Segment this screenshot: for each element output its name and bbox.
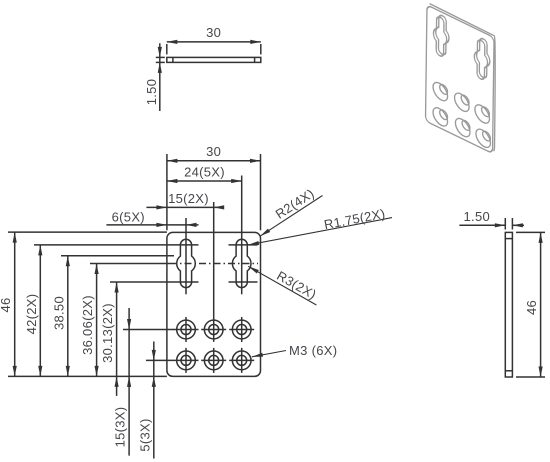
- isometric countersunk hole 4 outer ellipse: [430, 105, 450, 128]
- isometric countersunk hole 3 outer ellipse: [472, 102, 492, 125]
- isometric keyhole slot 1 outline: [433, 14, 447, 59]
- side view corner tangent tick bottom: [505, 370, 512, 372]
- hole r2c2 tap circle: [209, 355, 219, 365]
- hole r2c1 vertical crosshair: [185, 348, 187, 373]
- bottom edge extension line (left): [8, 375, 167, 377]
- hole r2c2 vertical crosshair: [213, 348, 215, 373]
- dimension 46 (side) - line and arrows: [540, 232, 542, 377]
- isometric view group: [425, 5, 494, 153]
- hole r1c3 countersink circle: [232, 320, 251, 339]
- dimension 42(2X) - vertical line: [39, 245, 41, 377]
- hole r1c2 horizontal crosshair: [201, 329, 226, 331]
- svg-text:46: 46: [0, 297, 13, 312]
- svg-text:38.50: 38.50: [51, 296, 66, 330]
- isometric keyhole slot 1 depth edge: [435, 13, 449, 58]
- front 15(2X) ext line middle column: [213, 202, 215, 342]
- hole r2c3 vertical crosshair: [241, 348, 243, 373]
- svg-text:24(5X): 24(5X): [184, 164, 225, 179]
- keyhole right vertical centerline (also ext for 24 dim): [241, 176, 243, 295]
- isometric countersunk hole 6 inner ellipse: [481, 130, 492, 142]
- top view corner-radius tangent tick left: [172, 57, 174, 62]
- front view keyhole slot left outline: [177, 239, 196, 287]
- front 30 dim - ext line left edge: [166, 154, 168, 230]
- dimension 36.06(2X) - vertical line: [96, 264, 98, 377]
- isometric keyhole slot 2 depth edge: [476, 36, 490, 81]
- svg-text:15(2X): 15(2X): [168, 191, 209, 206]
- dimension 46 - vertical line: [14, 232, 16, 376]
- hole r1c1 countersink circle: [177, 320, 196, 339]
- dimension 30 (top view) - extension line right: [260, 44, 262, 54]
- hole r2c3 tap circle: [237, 355, 247, 365]
- dimension 15(3X) - vertical line with outside arrows: [128, 308, 130, 456]
- dimension 30 (front) - line and arrows: [167, 160, 261, 162]
- isometric countersunk hole 6 outer ellipse: [473, 127, 493, 150]
- hole r1c3 horizontal crosshair: [229, 329, 254, 331]
- dimension 1.50 (top view) - extension tick bottom: [156, 61, 165, 63]
- keyhole left bottom-arc horizontal crosshair (with 30.13 extension line): [110, 281, 199, 283]
- dimension 15(2X) (front) - line, outside arrows: [146, 206, 224, 208]
- bulge axis dash-dot centerline across keyholes: [170, 263, 258, 265]
- dimension 46 (side) - ext line top: [516, 231, 545, 233]
- dimension 1.50 (top view) - dimension line: [159, 43, 161, 111]
- hole r2c1 tap circle: [181, 355, 191, 365]
- hole r1c2 tap circle: [209, 325, 219, 335]
- leader R2(4X) - line and arrow: [260, 196, 323, 237]
- hole r1c1 vertical crosshair: [185, 317, 187, 342]
- leader R1.75(2X) - line and arrow: [248, 218, 392, 245]
- svg-text:30: 30: [206, 25, 221, 40]
- leader R3(2X) - line and arrow: [248, 266, 316, 305]
- isometric keyhole slot 2 outline: [474, 37, 488, 82]
- isometric countersunk hole 2 outer ellipse: [452, 91, 472, 114]
- top view: plate seen from above (30 x 1.5): [167, 57, 261, 62]
- keyhole right bottom-arc horizontal crosshair: [229, 281, 258, 283]
- hole r1c3 vertical crosshair: [241, 317, 243, 342]
- top edge extension line (left, at y of plate top): [8, 231, 167, 233]
- isometric countersunk hole 3 inner ellipse: [480, 106, 491, 118]
- dimension 30 (top view) - extension line left: [166, 44, 168, 54]
- hole r1c1 tap circle: [181, 325, 191, 335]
- hole r2c3 countersink circle: [232, 351, 251, 370]
- dimension 38.50 - vertical line: [67, 256, 69, 377]
- dimension 24(5X) (front) - line and arrows: [167, 180, 242, 182]
- svg-text:1.50: 1.50: [464, 209, 491, 224]
- front 30 dim - ext line right edge: [260, 154, 262, 230]
- dimension 1.50 (top view) - extension tick top: [156, 56, 165, 58]
- hole r1c3 tap circle: [237, 325, 247, 335]
- keyhole left vertical centerline: [185, 218, 187, 294]
- isometric plate face outline: [425, 5, 494, 153]
- dimension 30.13(2X) - vertical line: [116, 282, 118, 396]
- side view corner tangent tick top: [505, 238, 512, 240]
- row1 extension line (15(3X)): [123, 329, 174, 331]
- svg-text:6(5X): 6(5X): [112, 209, 145, 224]
- hole r2c3 horizontal crosshair: [229, 359, 254, 361]
- dimension 1.50 (side) - ext line left: [504, 218, 506, 230]
- svg-text:30: 30: [206, 144, 221, 159]
- 38.50 extension line: [61, 255, 174, 257]
- svg-text:30.13(2X): 30.13(2X): [100, 303, 115, 363]
- svg-text:M3 (6X): M3 (6X): [289, 343, 337, 358]
- dimension 1.50 (side) - ext line right: [511, 218, 513, 230]
- svg-text:46: 46: [524, 300, 539, 315]
- hole r2c1 horizontal crosshair: [174, 359, 199, 361]
- hole r1c2 countersink circle: [204, 320, 223, 339]
- svg-text:R1.75(2X): R1.75(2X): [323, 206, 387, 232]
- dimension 1.50 (side) - line with outside arrows: [459, 224, 505, 226]
- side view: plate edge-on (1.5 x 46): [505, 232, 512, 377]
- hole r1c1 horizontal crosshair: [174, 329, 199, 331]
- svg-text:36.06(2X): 36.06(2X): [80, 295, 95, 355]
- keyhole left top-arc horizontal crosshair (with 42 extension line): [34, 244, 199, 246]
- row2 extension line (5(3X)): [146, 359, 174, 361]
- isometric plate thickness edge (top and right): [430, 4, 496, 152]
- hole r2c2 horizontal crosshair: [201, 359, 226, 361]
- isometric countersunk hole 5 inner ellipse: [460, 119, 471, 131]
- isometric countersunk hole 5 outer ellipse: [452, 116, 472, 139]
- dimension 5(3X) - vertical line with outside arrows: [153, 342, 155, 459]
- front view plate outline: [167, 232, 261, 376]
- hole r2c1 countersink circle: [177, 351, 196, 370]
- isometric countersunk hole 1 inner ellipse: [438, 83, 449, 95]
- hole r2c2 countersink circle: [204, 351, 223, 370]
- dimension 30 (top view) - dimension line with arrows: [167, 41, 261, 43]
- svg-text:5(3X): 5(3X): [137, 418, 152, 451]
- dimension 46 (side) - ext line bottom: [516, 376, 545, 378]
- isometric countersunk hole 1 outer ellipse: [430, 80, 450, 103]
- dimension 6(5X) (front) - line, outside arrows: [106, 224, 198, 226]
- svg-text:15(3X): 15(3X): [113, 407, 128, 448]
- isometric countersunk hole 2 inner ellipse: [460, 94, 471, 106]
- front view keyhole slot right outline: [232, 239, 251, 287]
- leader M3 (6X) - line and arrow: [252, 351, 286, 357]
- 36.06 extension line (solid part): [90, 263, 170, 265]
- top view corner-radius tangent tick right: [254, 57, 256, 62]
- svg-text:42(2X): 42(2X): [24, 294, 39, 335]
- isometric countersunk hole 4 inner ellipse: [438, 108, 449, 120]
- svg-text:1.50: 1.50: [144, 79, 159, 106]
- keyhole right top-arc horizontal crosshair: [229, 244, 258, 246]
